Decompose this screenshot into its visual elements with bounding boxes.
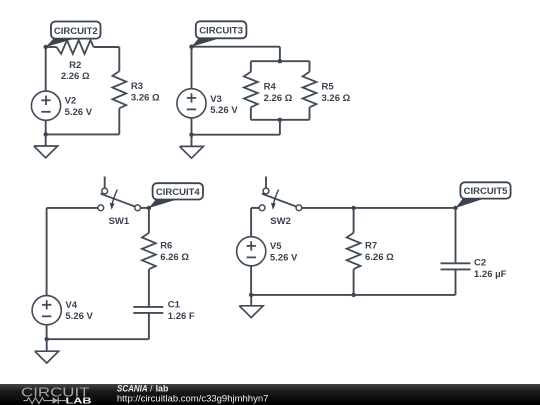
svg-text:V3: V3 [210, 94, 222, 105]
svg-text:CIRCUIT2: CIRCUIT2 [54, 26, 98, 37]
svg-text:5.26 V: 5.26 V [270, 252, 298, 263]
svg-text:5.26 V: 5.26 V [65, 311, 93, 322]
svg-text:V4: V4 [65, 300, 77, 311]
svg-text:CIRCUIT3: CIRCUIT3 [199, 26, 243, 37]
svg-text:lab: lab [156, 383, 169, 393]
svg-text:C2: C2 [474, 258, 486, 269]
svg-text:1.26 µF: 1.26 µF [474, 269, 507, 280]
svg-text:C1: C1 [168, 300, 181, 311]
svg-text:R2: R2 [69, 60, 81, 71]
svg-text:R4: R4 [264, 82, 277, 93]
svg-text:LAB: LAB [66, 396, 92, 405]
svg-text:R3: R3 [131, 81, 143, 92]
svg-text:3.26 Ω: 3.26 Ω [131, 92, 160, 103]
svg-text:3.26 Ω: 3.26 Ω [322, 93, 351, 104]
svg-text:SCANIA: SCANIA [117, 383, 148, 393]
svg-text:R7: R7 [365, 241, 377, 252]
svg-text:CIRCUIT4: CIRCUIT4 [156, 187, 201, 198]
svg-text:V2: V2 [65, 96, 77, 107]
svg-text:R6: R6 [160, 241, 172, 252]
svg-text:V5: V5 [270, 241, 282, 252]
svg-text:http://circuitlab.com/c33g9hjm: http://circuitlab.com/c33g9hjmhhyn7 [117, 393, 269, 403]
svg-text:R5: R5 [322, 82, 335, 93]
svg-text:1.26 F: 1.26 F [168, 311, 195, 322]
svg-text:2.26 Ω: 2.26 Ω [264, 93, 293, 104]
svg-text:5.26 V: 5.26 V [65, 107, 93, 118]
svg-text:CIRCUIT5: CIRCUIT5 [464, 186, 509, 197]
svg-text:2.26 Ω: 2.26 Ω [61, 71, 90, 82]
svg-text:5.26 V: 5.26 V [210, 105, 238, 116]
svg-text:6.26 Ω: 6.26 Ω [365, 252, 394, 263]
svg-text:6.26 Ω: 6.26 Ω [160, 252, 189, 263]
svg-text:SW1: SW1 [109, 216, 130, 227]
svg-text:SW2: SW2 [270, 216, 291, 227]
